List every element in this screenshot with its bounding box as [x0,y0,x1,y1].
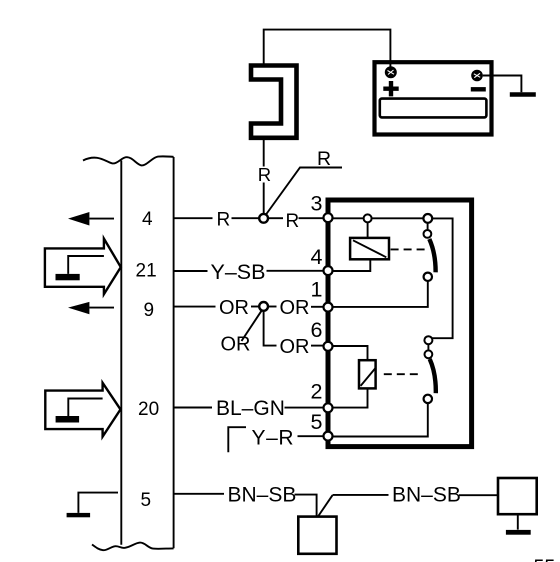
svg-text:R: R [286,211,300,232]
wire feed from fuse to battery positive [264,30,391,68]
wire coil K1 to pin 4 [333,259,371,271]
wire row 20 (BL-GN) [174,407,212,409]
wire pin 6 to relay coil K2 [333,346,368,360]
arrow in with ground (row 20) [45,383,120,437]
leader line for label R [266,168,342,215]
svg-text:BL–GN: BL–GN [216,397,285,420]
ground symbol inside arrow (row 20) [68,399,102,417]
switch S2 lower contact [424,395,432,403]
arrow in with ground (row 21) [45,239,121,295]
ground (row 5 left) [78,493,118,513]
switch S2 fixed contact [424,336,432,344]
wire row 5 (BN-SB) [174,493,224,495]
wire row 9 (OR) [174,306,216,308]
switch S2 pivot contact [425,350,433,358]
wire to pin 1 [311,306,324,308]
arrow tail wire (row 9) [89,307,114,309]
leader bracket for Y-R [228,427,246,452]
ground symbol inside arrow (row 21) [68,256,104,274]
component box (bottom right) [498,478,537,514]
switch S1 blade [429,239,435,272]
wire bend into junction box [295,495,317,517]
fuse F1 [251,66,297,138]
torn edge top [83,156,174,165]
switch S1 fixed contact [423,214,432,223]
ground (battery negative) [510,92,536,96]
wire label R (right of splice) [268,217,283,219]
svg-text:R: R [258,164,271,185]
wire from fuse bottom to splice node [263,140,265,215]
svg-text:OR: OR [219,297,249,319]
switch S2 blade [430,359,436,393]
junction box (bottom centre) [298,517,336,554]
svg-text:OR: OR [280,297,310,319]
wire to right component [459,494,498,496]
arrow out (row 9) [68,302,89,314]
svg-text:R: R [317,148,331,170]
svg-text:20: 20 [138,399,159,420]
svg-text:OR: OR [280,336,310,358]
svg-text:9: 9 [144,300,155,321]
svg-text:5: 5 [311,410,323,434]
switch S1 lower contact [424,273,432,281]
wire row 4 (R) from connector to splice [174,217,213,219]
branch wire diagonal into junction box [318,495,333,516]
battery plus sign [383,81,398,96]
wire coil K2 to pin 2 [333,388,368,407]
wire to pin 3 [299,217,324,219]
pin 3 terminal [324,213,333,222]
pin 1 terminal [324,303,333,312]
splice node (R) [259,214,268,223]
pin 2 terminal [324,403,333,412]
pin 4 terminal [324,266,333,275]
wire label OR (right of splice) [268,306,276,308]
battery negative terminal [471,70,483,82]
battery [375,62,492,134]
pin 5 terminal [324,432,333,441]
battery minus sign [471,87,486,91]
battery positive terminal [385,66,397,78]
relay unit box [328,200,472,447]
wire junction to coil K1 [367,222,369,237]
dashed actuating link K2 [384,373,421,375]
svg-text:OR: OR [221,334,251,356]
wire S1 lower contact to pin 1 [333,281,428,307]
junction node to relay coil K1 [364,214,372,222]
svg-text:4: 4 [142,209,153,230]
leader line for OR label [242,311,262,341]
svg-text:2: 2 [311,379,323,403]
wire battery negative to ground [483,76,522,93]
internal wire pin 3 to contact K1 [333,217,424,219]
svg-text:R: R [217,210,231,231]
svg-text:5: 5 [141,490,152,511]
svg-text:BN–SB: BN–SB [392,484,461,507]
svg-text:21: 21 [136,260,157,281]
pin 6 terminal [324,342,333,351]
svg-text:4: 4 [311,245,323,269]
svg-text:Y–SB: Y–SB [211,260,266,284]
connector strip right line [173,157,175,548]
svg-text:BN–SB: BN–SB [228,484,297,507]
switch S1 pivot contact [424,230,432,238]
arrow tail wire (row 4) [89,218,114,220]
splice node (OR) [259,302,268,311]
svg-text:3: 3 [311,192,323,216]
internal wire contact S1 to switch S2 [432,218,453,338]
torn edge bottom [92,543,174,551]
relay coil K1 [350,238,389,259]
battery label window [380,99,487,118]
svg-text:Y–R: Y–R [252,427,295,450]
svg-text:6: 6 [311,318,323,342]
wire Y-R to pin 5 [298,435,324,437]
branch wire from OR splice to pin 6 [264,311,277,346]
relay coil K2 [359,360,376,388]
wire row 21 (Y-SB) [174,270,208,272]
ground (bottom right component) [517,514,519,529]
arrow out (row 4) [68,212,89,226]
dashed actuating link K1 [391,248,425,250]
svg-text:55: 55 [534,556,556,562]
svg-text:1: 1 [311,278,323,302]
wire S2 lower contact to pin 5 [333,403,428,436]
connector strip left line [120,161,122,545]
